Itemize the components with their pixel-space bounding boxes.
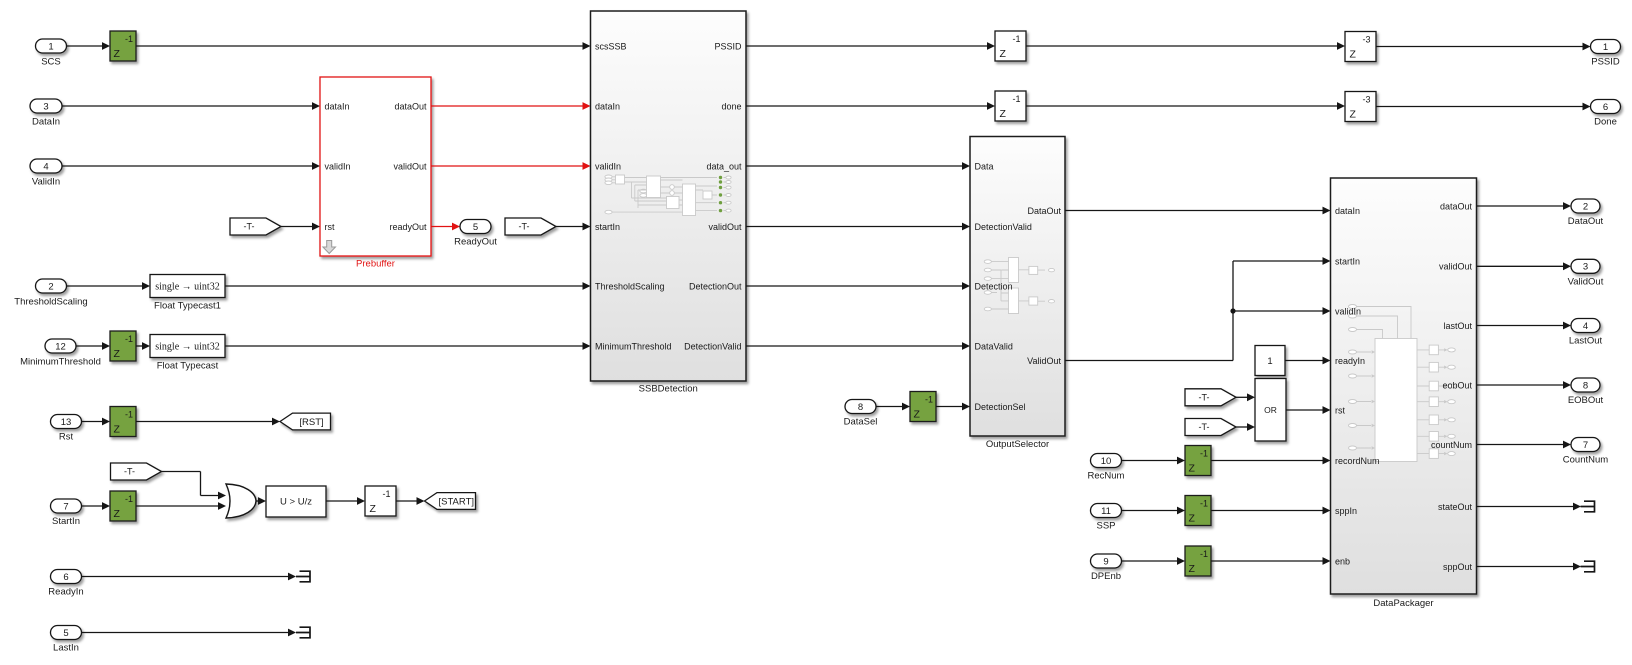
wire to delay (76, 345, 104, 347)
svg-text:ValidIn: ValidIn (32, 177, 60, 188)
outport 1 PSSID (1591, 40, 1621, 54)
svg-text:lastOut: lastOut (1443, 321, 1472, 331)
svg-text:13: 13 (61, 417, 72, 428)
svg-text:10: 10 (1101, 456, 1112, 467)
svg-text:eobOut: eobOut (1442, 380, 1472, 390)
svg-text:-1: -1 (1200, 499, 1208, 509)
wire to outport PSSID (1376, 46, 1584, 48)
svg-text:5: 5 (63, 628, 68, 639)
svg-text:-T-: -T- (244, 222, 255, 232)
wire DetectionOut to OutputSelector Detection (746, 285, 964, 287)
svg-text:-1: -1 (382, 489, 390, 499)
svg-text:DPEnb: DPEnb (1091, 571, 1121, 582)
svg-text:LastIn: LastIn (53, 643, 79, 654)
svg-text:DataOut: DataOut (1027, 206, 1061, 216)
svg-text:Z: Z (114, 348, 121, 360)
svg-text:DetectionOut: DetectionOut (689, 281, 742, 291)
red wire Prebuffer dataOut to SSBDetection dataIn (431, 105, 584, 107)
svg-text:-T-: -T- (1199, 422, 1210, 432)
svg-text:2: 2 (48, 281, 53, 292)
content preview inside OutputSelector (984, 258, 1054, 314)
svg-text:ReadyIn: ReadyIn (48, 587, 83, 598)
delay Z-1 (done) (995, 91, 1026, 121)
svg-text:stateOut: stateOut (1438, 502, 1473, 512)
svg-text:Z: Z (1000, 48, 1007, 60)
svg-text:Prebuffer: Prebuffer (356, 259, 395, 270)
wire StartIn to delay (82, 505, 104, 507)
svg-text:U > U/z: U > U/z (280, 497, 312, 508)
constant 1 block (1255, 346, 1285, 376)
wire ValidIn to Prebuffer validIn (62, 165, 314, 167)
wire delay to OR gate (136, 505, 220, 507)
OR gate (226, 484, 256, 518)
wire delay to SSBDetection scsSSB (136, 45, 584, 47)
delay Z-1 (StartIn) (110, 491, 136, 521)
svg-text:Data: Data (975, 161, 994, 171)
wire validOut to OutputSelector DetectionValid (746, 226, 964, 228)
wire DetectionValid to OutputSelector DataValid (746, 345, 964, 347)
inport 7 StartIn (51, 499, 82, 513)
svg-text:readyOut: readyOut (389, 222, 427, 232)
delay Z-1 (PSSID) (995, 31, 1026, 61)
svg-text:3: 3 (43, 101, 48, 112)
wire delay to OutputSelector DetectionSel (936, 406, 964, 408)
delay Z-3 (done) (1345, 92, 1376, 122)
wire data_out to OutputSelector Data (746, 165, 964, 167)
wire PSSID to delay Z-1 (746, 45, 988, 47)
wire SCS to delay (67, 45, 104, 47)
svg-text:Z: Z (114, 508, 121, 520)
wire delay to DataPackager sppIn (1211, 510, 1324, 512)
wire LastIn to terminator (82, 632, 289, 634)
svg-text:RecNum: RecNum (1088, 471, 1125, 482)
svg-text:-1: -1 (125, 334, 133, 344)
wire stateOut to terminator (1477, 506, 1574, 508)
inport 12 MinimumThreshold (45, 339, 76, 353)
svg-text:3: 3 (1583, 262, 1588, 273)
svg-text:validIn: validIn (325, 161, 351, 171)
svg-text:8: 8 (1583, 380, 1588, 391)
content preview inside DataPackager (1349, 305, 1456, 462)
wire DataSel to delay (876, 406, 904, 408)
svg-text:Z: Z (914, 409, 921, 421)
wire tag to SSBDetection startIn (556, 226, 584, 228)
svg-text:Z: Z (370, 503, 377, 515)
svg-text:-1: -1 (1200, 549, 1208, 559)
svg-text:MinimumThreshold: MinimumThreshold (20, 357, 101, 368)
svg-text:countNum: countNum (1431, 440, 1472, 450)
svg-text:Detection: Detection (975, 281, 1013, 291)
svg-text:Float Typecast1: Float Typecast1 (154, 301, 221, 312)
svg-text:Z: Z (1350, 49, 1357, 61)
svg-text:startIn: startIn (595, 222, 620, 232)
svg-text:9: 9 (1103, 556, 1108, 567)
wire Float Typecast to SSBDetection MinimumThreshold (225, 345, 584, 347)
wire tag to OR (1236, 426, 1249, 428)
svg-text:enb: enb (1335, 556, 1350, 566)
svg-text:Z: Z (1350, 109, 1357, 121)
terminator LastIn (296, 627, 310, 638)
svg-text:dataIn: dataIn (595, 101, 620, 111)
wire validOut to outport ValidOut (1477, 265, 1565, 267)
svg-text:readyIn: readyIn (1335, 356, 1365, 366)
outport 6 Done (1591, 100, 1621, 114)
svg-text:CountNum: CountNum (1563, 455, 1608, 466)
delay Z-3 (PSSID) (1345, 32, 1376, 62)
tag -T- (OR gate input) (111, 463, 162, 480)
svg-text:Z: Z (114, 424, 121, 436)
wire delay to goto RST (136, 421, 274, 423)
svg-text:rst: rst (325, 222, 335, 232)
inport 8 DataSel (845, 400, 876, 414)
svg-text:EOBOut: EOBOut (1568, 395, 1604, 406)
block Float Typecast1 (single to uint32) (150, 275, 225, 298)
tag -T- (rst source) (230, 218, 281, 235)
svg-text:StartIn: StartIn (52, 516, 80, 527)
svg-text:dataOut: dataOut (1440, 201, 1473, 211)
svg-text:DetectionSel: DetectionSel (975, 402, 1026, 412)
svg-text:-3: -3 (1362, 35, 1370, 45)
logical operator OR block (1255, 379, 1286, 442)
outport 3 ValidOut (1571, 259, 1600, 273)
svg-text:OutputSelector: OutputSelector (986, 439, 1049, 450)
wire tag to Prebuffer rst (281, 226, 314, 228)
red wire Prebuffer validOut to SSBDetection validIn (431, 165, 584, 167)
svg-text:-1: -1 (125, 494, 133, 504)
svg-text:dataIn: dataIn (1335, 206, 1360, 216)
svg-text:validOut: validOut (1439, 262, 1473, 272)
svg-text:11: 11 (1101, 506, 1111, 517)
svg-text:DetectionValid: DetectionValid (684, 341, 741, 351)
subsystem SSBDetection (591, 11, 747, 381)
svg-text:OR: OR (1264, 405, 1277, 415)
wire RecNum to delay (1122, 460, 1179, 462)
svg-text:DataIn: DataIn (32, 117, 60, 128)
svg-text:Z: Z (1189, 513, 1196, 525)
svg-text:-1: -1 (125, 34, 133, 44)
block U > U/z (detect increase) (266, 486, 326, 517)
inport 4 ValidIn (30, 159, 62, 173)
svg-text:SSBDetection: SSBDetection (639, 384, 698, 395)
svg-text:startIn: startIn (1335, 256, 1360, 266)
wire eobOut to outport EOBOut (1477, 384, 1565, 386)
svg-text:4: 4 (1583, 321, 1588, 332)
content preview inside SSBDetection (605, 175, 731, 216)
tag -T- (OR input 1) (1185, 389, 1236, 406)
svg-text:PSSID: PSSID (1591, 57, 1620, 68)
svg-text:PSSID: PSSID (714, 41, 742, 51)
svg-text:12: 12 (55, 341, 66, 352)
svg-text:DataOut: DataOut (1568, 216, 1604, 227)
svg-text:scsSSB: scsSSB (595, 41, 627, 51)
svg-text:5: 5 (473, 222, 478, 233)
svg-text:SCS: SCS (41, 57, 61, 68)
svg-text:-3: -3 (1362, 95, 1370, 105)
wire tag down to OR gate (161, 471, 201, 473)
inport 2 ThresholdScaling (36, 279, 67, 293)
svg-text:MinimumThreshold: MinimumThreshold (595, 341, 672, 351)
svg-text:dataIn: dataIn (325, 101, 350, 111)
svg-text:ValidOut: ValidOut (1027, 356, 1061, 366)
inport 6 ReadyIn (51, 570, 82, 584)
terminator stateOut (1581, 501, 1595, 512)
wire ValidOut up to DataPackager startIn and validIn (1065, 360, 1233, 362)
svg-text:validOut: validOut (393, 161, 427, 171)
svg-text:SSP: SSP (1096, 521, 1115, 532)
svg-text:6: 6 (63, 572, 68, 583)
wire SSP to delay (1122, 510, 1179, 512)
icon gray down-arrow inside Prebuffer (323, 241, 336, 254)
wire to outport Done (1376, 106, 1584, 108)
outport 8 EOBOut (1571, 378, 1600, 392)
svg-text:8: 8 (858, 402, 863, 413)
wire constant to readyIn (1285, 360, 1324, 362)
svg-text:Z: Z (1189, 463, 1196, 475)
svg-text:[START]: [START] (438, 496, 474, 507)
svg-text:ThresholdScaling: ThresholdScaling (595, 281, 665, 291)
svg-text:Z: Z (1000, 108, 1007, 120)
svg-text:2: 2 (1583, 201, 1588, 212)
svg-text:recordNum: recordNum (1335, 456, 1380, 466)
svg-text:-T-: -T- (1199, 393, 1210, 403)
svg-text:-1: -1 (125, 410, 133, 420)
svg-text:ThresholdScaling: ThresholdScaling (14, 297, 87, 308)
wire dataOut to outport DataOut (1477, 205, 1565, 207)
terminator ReadyIn (296, 571, 310, 582)
wire sppOut to terminator (1477, 566, 1574, 568)
svg-text:[RST]: [RST] (299, 417, 323, 428)
svg-text:7: 7 (63, 501, 68, 512)
svg-text:sppIn: sppIn (1335, 506, 1357, 516)
preview green output dots (719, 176, 722, 179)
svg-text:Rst: Rst (59, 432, 74, 443)
outport 5 ReadyOut (460, 220, 491, 234)
inport 3 DataIn (30, 99, 62, 113)
delay Z-1 (MinimumThreshold) (110, 331, 136, 361)
svg-text:validOut: validOut (708, 222, 742, 232)
svg-text:1: 1 (1603, 42, 1608, 53)
outport 7 CountNum (1571, 438, 1600, 452)
svg-text:1: 1 (1267, 356, 1272, 367)
svg-text:-1: -1 (1012, 34, 1020, 44)
tag -T- (OR input 2) (1185, 419, 1236, 436)
junction dot validIn branch (1230, 308, 1235, 313)
svg-text:-1: -1 (1200, 449, 1208, 459)
wire tag to OR (1236, 396, 1249, 398)
svg-text:6: 6 (1603, 102, 1608, 113)
wire lastOut to outport LastOut (1477, 325, 1565, 327)
wire delay to DataPackager enb (1211, 560, 1324, 562)
wire delay to Float Typecast (136, 345, 144, 347)
svg-text:DetectionValid: DetectionValid (975, 222, 1032, 232)
svg-text:sppOut: sppOut (1443, 562, 1473, 572)
subsystem DataPackager (1331, 178, 1477, 594)
wire delay to DataPackager recordNum (1211, 460, 1324, 462)
subsystem OutputSelector (970, 137, 1065, 437)
wire DPEnb to delay (1122, 560, 1179, 562)
svg-text:DataSel: DataSel (844, 417, 878, 428)
goto tag [START] (425, 493, 476, 510)
wire compare to delay (326, 500, 359, 502)
svg-text:validIn: validIn (595, 161, 621, 171)
delay Z-1 (SCS) (110, 31, 136, 61)
svg-text:Done: Done (1594, 117, 1617, 128)
outport 4 LastOut (1571, 319, 1600, 333)
svg-text:single → uint32: single → uint32 (155, 342, 219, 353)
outport 2 DataOut (1571, 199, 1600, 213)
svg-text:-T-: -T- (124, 467, 135, 477)
wire to delay Z-3 (1026, 105, 1338, 107)
delay Z-1 (DPEnb) (1185, 546, 1211, 576)
svg-text:-1: -1 (925, 395, 933, 405)
terminator sppOut (1581, 561, 1595, 572)
svg-text:DataPackager: DataPackager (1373, 598, 1433, 609)
svg-text:LastOut: LastOut (1569, 336, 1603, 347)
svg-text:-T-: -T- (519, 222, 530, 232)
svg-text:single → uint32: single → uint32 (155, 282, 219, 293)
block Float Typecast (single to uint32) (150, 335, 225, 358)
inport 11 SSP (1091, 504, 1122, 518)
svg-text:done: done (721, 101, 741, 111)
svg-text:ReadyOut: ReadyOut (454, 237, 497, 248)
subsystem Prebuffer (highlighted red) (320, 77, 431, 256)
wire done to delay Z-1 (746, 105, 988, 107)
wire delay to goto START (396, 500, 418, 502)
svg-text:rst: rst (1335, 405, 1345, 415)
wire DataOut to DataPackager dataIn (1065, 210, 1324, 212)
wire countNum to outport CountNum (1477, 444, 1565, 446)
svg-text:Z: Z (114, 48, 121, 60)
delay Z-1 (start) (365, 486, 396, 516)
inport 10 RecNum (1091, 454, 1122, 468)
svg-text:Z: Z (1189, 563, 1196, 575)
red wire Prebuffer readyOut to outport ReadyOut (431, 226, 454, 228)
goto tag [RST] (280, 413, 331, 430)
svg-text:dataOut: dataOut (394, 101, 427, 111)
svg-text:Float Typecast: Float Typecast (157, 361, 219, 372)
wire ReadyIn to terminator (82, 576, 289, 578)
svg-text:data_out: data_out (706, 161, 742, 171)
wire DataIn to Prebuffer dataIn (62, 105, 314, 107)
delay Z-1 (RecNum) (1185, 446, 1211, 476)
delay Z-1 (DataSel) (910, 392, 936, 422)
delay Z-1 (SSP) (1185, 496, 1211, 526)
svg-text:validIn: validIn (1335, 306, 1361, 316)
svg-text:1: 1 (48, 41, 53, 52)
wire to delay Z-3 (1026, 45, 1338, 47)
svg-text:-1: -1 (1012, 94, 1020, 104)
svg-text:7: 7 (1583, 440, 1588, 451)
svg-text:4: 4 (43, 161, 48, 172)
svg-text:DataValid: DataValid (975, 341, 1013, 351)
inport 5 LastIn (51, 626, 82, 640)
inport 1 SCS (36, 39, 67, 53)
svg-text:ValidOut: ValidOut (1568, 277, 1604, 288)
delay Z-1 (Rst) (110, 407, 136, 437)
wire OR to DataPackager rst (1286, 409, 1324, 411)
inport 9 DPEnb (1091, 554, 1122, 568)
wire to Float Typecast1 (67, 285, 144, 287)
inport 13 Rst (51, 415, 82, 429)
wire Float Typecast1 to SSBDetection ThresholdScaling (225, 285, 584, 287)
tag -T- (start source) (505, 218, 556, 235)
wire Rst to delay (82, 421, 104, 423)
wire OR gate to compare block (256, 500, 260, 502)
